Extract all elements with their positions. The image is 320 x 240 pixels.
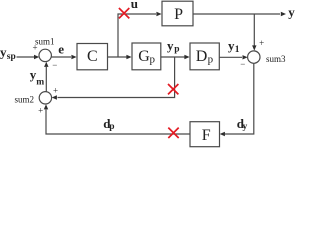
svg-text:e: e <box>58 42 64 57</box>
wire y_sp to sum1 <box>17 55 40 59</box>
wire branch down to sum3 <box>252 14 256 51</box>
svg-text:u: u <box>131 0 138 11</box>
wire sum1 to C (signal e) <box>51 55 76 59</box>
svg-text:+: + <box>259 38 264 48</box>
svg-text:sum3: sum3 <box>266 54 286 64</box>
summing junction sum2 <box>39 92 51 104</box>
wire branch down from yp to sum2 <box>52 57 175 100</box>
svg-text:p: p <box>150 53 156 65</box>
svg-text:sum1: sum1 <box>35 36 55 46</box>
block Dp <box>190 43 219 70</box>
wire P to y output <box>193 12 286 16</box>
svg-text:+: + <box>38 106 43 116</box>
svg-text:m: m <box>36 78 44 88</box>
node y1 label <box>228 38 240 55</box>
node dy label <box>237 116 248 132</box>
wire F output to sum2 (signal dp) <box>44 104 190 134</box>
red X on yp feedback line <box>168 84 178 94</box>
wire Dp to sum3 (signal y1) <box>219 55 247 59</box>
svg-text:p: p <box>174 45 179 55</box>
svg-text:F: F <box>202 127 211 144</box>
summing junction sum1 <box>39 49 51 61</box>
red X on dp line <box>168 128 178 138</box>
svg-text:y: y <box>243 122 248 132</box>
svg-text:sp: sp <box>7 52 16 62</box>
svg-text:+: + <box>33 42 38 52</box>
node dp label <box>103 116 114 132</box>
svg-text:−: − <box>52 60 57 70</box>
svg-text:y: y <box>167 38 174 53</box>
node yp label <box>167 38 179 55</box>
node ym label <box>30 67 45 88</box>
plant block P <box>162 1 193 26</box>
svg-text:+: + <box>53 86 58 96</box>
svg-text:D: D <box>196 48 208 65</box>
wire sum2 up to sum1 (signal ym) <box>44 62 48 92</box>
wire branch up to P (signal u) <box>118 12 162 57</box>
filter block F <box>190 122 220 147</box>
svg-text:sum2: sum2 <box>15 94 35 104</box>
svg-text:−: − <box>240 59 245 69</box>
controller block C <box>77 44 108 70</box>
svg-text:p: p <box>109 122 114 132</box>
wire sum3 down and left to F <box>220 63 254 136</box>
process model block Gp <box>132 43 161 70</box>
node y_sp label <box>0 44 16 62</box>
wire Gp to Dp (signal yp) <box>161 55 190 59</box>
svg-text:P: P <box>174 6 183 23</box>
svg-text:p: p <box>208 53 214 65</box>
svg-text:1: 1 <box>235 45 240 55</box>
summing junction sum3 <box>248 51 260 63</box>
svg-text:y: y <box>288 4 295 19</box>
svg-text:G: G <box>138 48 150 65</box>
svg-text:C: C <box>87 48 98 65</box>
red X on u line <box>119 8 129 18</box>
wire C to Gp <box>108 55 132 59</box>
